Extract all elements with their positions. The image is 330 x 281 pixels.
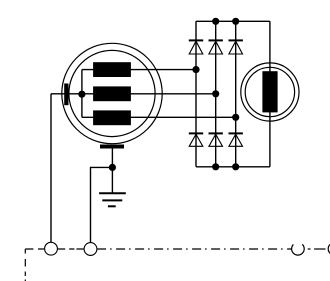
wire star point vertical	[81, 70, 83, 118]
node brush stem junction	[109, 164, 116, 171]
wire phase row 3	[82, 116, 236, 118]
wire bottom brush stem	[111, 149, 113, 194]
wire phase row 2	[51, 93, 216, 95]
wire left terminal drop	[50, 94, 52, 242]
wire diode column 3	[235, 21, 237, 167]
rotor field winding bar	[262, 71, 277, 112]
ground bar 1	[99, 192, 126, 194]
ground bar 2	[102, 199, 122, 201]
node top bus col3	[232, 18, 239, 25]
stator winding W3	[93, 110, 131, 125]
wire diode column 2	[215, 21, 217, 167]
terminal circle X1	[45, 242, 58, 255]
diode D1 top col1	[189, 40, 203, 54]
node bottom bus col3	[232, 163, 239, 170]
rotor field inner circle	[245, 67, 294, 116]
wire diode column 1	[195, 21, 197, 167]
chassis dash before X4	[314, 248, 325, 250]
chassis dash-dot segment X1 to X2	[58, 248, 84, 250]
diode D5 bottom col2	[209, 133, 223, 146]
rotor field outer circle	[241, 63, 299, 121]
node phase 2 to diode column 2	[212, 90, 219, 97]
diode D3 top col3	[229, 40, 243, 54]
connector arc X3 open top	[292, 244, 305, 255]
chassis dash X3 right stub	[308, 248, 311, 250]
terminal circle X2	[84, 243, 97, 256]
ground bar 3	[108, 205, 116, 207]
stator winding W1	[93, 62, 131, 77]
wire top bus B+	[196, 20, 270, 22]
wire junction to terminal 2	[91, 167, 113, 242]
wire bottom bus B-	[196, 166, 270, 168]
brush bar left	[64, 84, 68, 106]
node phase 1 to diode column 1	[192, 66, 199, 73]
chassis dash-dot segment corner to X1	[25, 248, 44, 250]
chassis dashed corner vertical	[24, 249, 26, 281]
diode D2 top col2	[209, 40, 223, 54]
node top bus col2	[212, 18, 219, 25]
diode D4 bottom col1	[189, 133, 203, 146]
generator G1 stator outer circle	[62, 43, 162, 143]
diode D6 bottom col3	[229, 133, 243, 146]
generator G1 stator inner circle	[69, 50, 155, 136]
stator winding W2	[93, 86, 131, 101]
wire phase row 1	[82, 69, 196, 71]
chassis dash-dot segment X2 to X3	[97, 248, 292, 250]
wire right vertical to rotor	[269, 21, 271, 167]
node phase 3 to diode column 3	[232, 114, 239, 121]
node star point	[78, 91, 85, 98]
connector arc X4 partial right edge	[328, 244, 330, 255]
node bottom bus col2	[212, 163, 219, 170]
brush bar bottom	[100, 145, 124, 149]
